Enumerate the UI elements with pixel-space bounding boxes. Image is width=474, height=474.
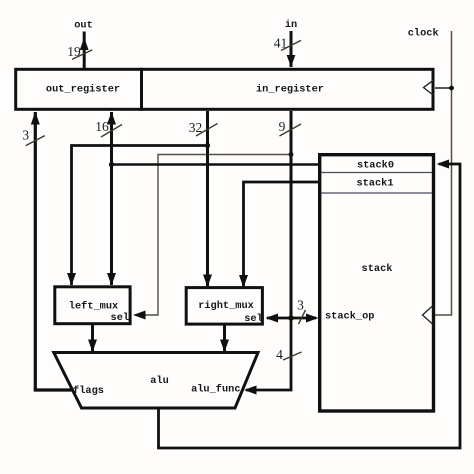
mux left_mux: [55, 287, 130, 324]
svg-text:alu: alu: [150, 375, 169, 387]
stack register stack0: [321, 172, 432, 174]
svg-text:stack: stack: [362, 263, 393, 275]
stack block: [320, 155, 434, 411]
alu trapezoid: [54, 353, 258, 409]
stack register stack1: [321, 192, 432, 194]
wire in_register clock branch: [435, 87, 452, 89]
svg-text:flags: flags: [73, 385, 104, 397]
svg-text:clock: clock: [408, 28, 439, 40]
mux right_mux: [186, 288, 262, 325]
svg-text:sel: sel: [244, 313, 263, 325]
wire stack1 to right_mux: [244, 182, 319, 287]
svg-text:3: 3: [22, 128, 29, 143]
clock input triangle in_register: [424, 81, 434, 96]
wire flags 3-bit from alu to out_register: [35, 112, 71, 390]
slash 19: [72, 50, 92, 60]
slash 4: [283, 352, 302, 360]
svg-text:out_register: out_register: [46, 84, 120, 96]
svg-text:in: in: [285, 19, 297, 31]
junction clock in_register: [449, 86, 454, 91]
wire stack_op right arrow into stack: [291, 317, 316, 320]
wire 9-bit bus vertical: [290, 111, 293, 318]
svg-text:4: 4: [276, 347, 283, 362]
wire 16-bit branch to stack0: [112, 163, 319, 166]
svg-text:9: 9: [279, 119, 286, 134]
svg-text:in_register: in_register: [256, 83, 324, 95]
wire right_mux output to alu: [223, 325, 226, 351]
arrowhead sel left_mux: [133, 311, 146, 320]
slash 9: [280, 124, 302, 136]
svg-text:right_mux: right_mux: [198, 300, 254, 312]
wire sel feedback to left_mux: [136, 155, 291, 316]
junction 16-bit to stack0 branch: [109, 162, 114, 167]
register in_register: [142, 69, 434, 109]
wire alu_func 4-bit: [246, 318, 291, 390]
wire out (19-bit): [83, 32, 86, 69]
junction 32-bit to left_mux branch: [205, 143, 210, 148]
wire 32-bit bus vertical to right_mux: [206, 111, 209, 286]
svg-text:16: 16: [95, 119, 109, 134]
junction 9-bit sel branch: [289, 152, 294, 157]
wire alu output loop to stack: [159, 164, 461, 448]
slash 3: [26, 136, 45, 146]
svg-text:stack1: stack1: [356, 178, 393, 190]
slash 41: [281, 40, 301, 50]
svg-text:alu_func: alu_func: [191, 383, 240, 395]
wire clock line vertical: [435, 31, 452, 315]
junction stack_op: [288, 315, 294, 321]
svg-text:sel: sel: [111, 312, 130, 324]
wire 16-bit stack0 bus vertical: [110, 112, 113, 285]
svg-text:left_mux: left_mux: [69, 300, 118, 312]
wire left_mux output to alu: [91, 324, 94, 351]
wire stack_op left arrow into right_mux sel: [267, 317, 291, 320]
svg-text:stack0: stack0: [357, 160, 394, 172]
register out_register: [16, 69, 142, 109]
slash 16: [101, 125, 122, 138]
svg-text:32: 32: [189, 120, 203, 135]
wire 32-bit branch to left_mux: [72, 146, 208, 286]
slash 32: [196, 124, 218, 137]
svg-text:out: out: [74, 20, 93, 32]
wire in (41-bit): [290, 31, 293, 67]
svg-text:stack_op: stack_op: [325, 311, 374, 323]
svg-text:3: 3: [297, 297, 304, 312]
clock input triangle stack: [423, 306, 433, 324]
slash 3 stack_op: [299, 310, 306, 324]
